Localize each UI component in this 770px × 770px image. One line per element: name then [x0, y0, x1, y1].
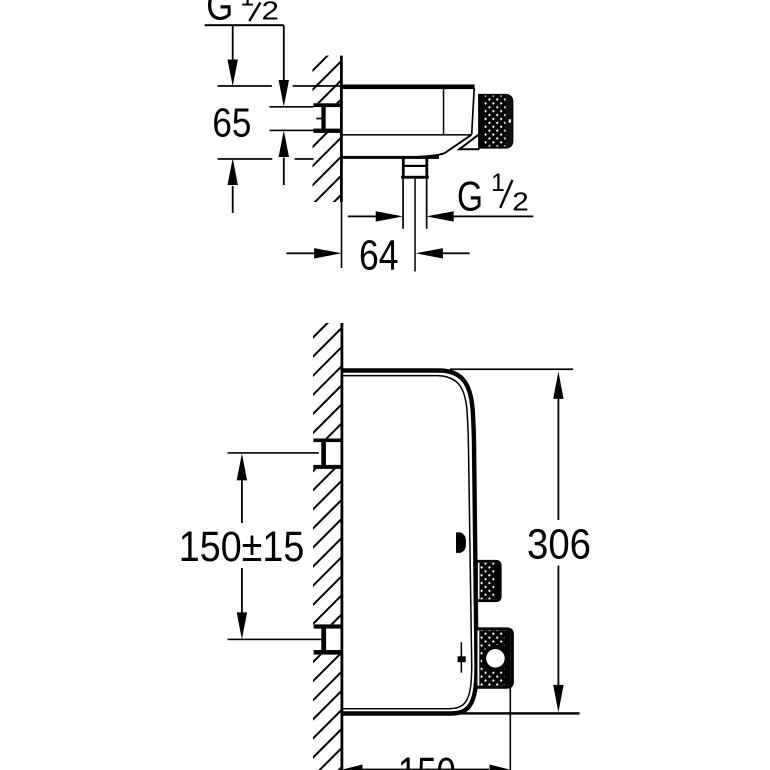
wall hatching (bottom drawing): [313, 323, 342, 770]
lower knob knurl: [479, 630, 506, 685]
upper mounting nipple left edge: [321, 440, 326, 467]
extension line nipple bottom y=130.4: [270, 130, 314, 132]
outlet pipe centerline: [414, 179, 416, 272]
inlet nipple centerline dash: [316, 118, 321, 120]
outlet nipple left edge: [402, 159, 405, 179]
dim arrow 65 down: [228, 60, 238, 87]
inlet nipple background (erases hatch): [311, 103, 340, 133]
inlet nipple top flange: [313, 103, 341, 107]
valve body chamfer line: [419, 135, 472, 157]
dim 64: left line + arrow: [286, 252, 314, 254]
shelf button profile (black blob): [456, 532, 466, 553]
dim line 65 upper shaft: [232, 25, 234, 60]
dim 306 bottom extension line: [460, 712, 580, 714]
lower knob (diverter) outline: [476, 629, 512, 687]
upper mounting nipple top flange: [313, 439, 341, 443]
dim 306 line + arrows: [553, 371, 563, 399]
dim arrow G12 up: [279, 131, 289, 158]
outlet nut top line: [403, 165, 429, 167]
collar chamfer line: [459, 134, 480, 150]
upper mounting nipple bottom flange: [313, 465, 341, 469]
svg-text:150±15: 150±15: [179, 523, 304, 571]
svg-text:306: 306: [527, 521, 591, 569]
upper knob knurl: [480, 563, 497, 599]
svg-text:150: 150: [398, 749, 456, 770]
svg-text:64: 64: [359, 231, 399, 279]
label G 1/2 (right) : fraction slash: [500, 180, 512, 208]
dim 150±15 line upper + arrow up: [237, 453, 247, 480]
dim G12 pipe: right arrow + line: [426, 211, 453, 221]
dim 306 top extension line: [450, 368, 573, 370]
lower mounting nipple background (erases hatch): [311, 624, 341, 654]
lower knob button ring: [482, 645, 509, 672]
dim 150±15 line lower + arrow down: [241, 568, 243, 613]
inlet nipple left edge: [321, 105, 325, 131]
dim line 65 lower shaft: [232, 186, 234, 213]
svg-text:65: 65: [212, 100, 251, 146]
dim 150 right extension line: [510, 688, 512, 770]
upper mounting nipple background (erases hatch): [311, 439, 341, 469]
valve body right edge: [472, 89, 475, 135]
knob knurl fill: [485, 96, 507, 147]
knob right cap: [506, 94, 513, 148]
dim arrow 65 up: [228, 158, 238, 185]
wall surface line (top drawing): [340, 56, 343, 202]
svg-text:1: 1: [240, 0, 254, 12]
dim 150±15 lower extension line: [228, 639, 322, 641]
knob outline: [479, 95, 512, 148]
wall hatching (top drawing): [313, 56, 342, 202]
dim line G12 lower shaft: [283, 158, 285, 186]
valve body feature line horizontal: [342, 134, 471, 136]
svg-text:1: 1: [491, 169, 505, 197]
extension line top of body y=85.9: [218, 85, 272, 87]
valve body feature line vertical: [443, 88, 445, 135]
label G 1/2 (top left) : fraction slash: [249, 3, 260, 22]
lower mounting nipple left edge: [321, 626, 326, 653]
knob cap highlight: [509, 119, 511, 122]
svg-text:G: G: [457, 172, 483, 219]
dim 64: right arrow + line: [416, 248, 443, 258]
thermostat outer contour: [343, 371, 477, 714]
dim 150±15 upper extension line: [228, 452, 319, 454]
upper knob right strip: [495, 563, 500, 599]
outlet pipe left line: [402, 179, 404, 229]
leader underline (top left): [205, 24, 284, 26]
outlet nut bottom line: [401, 176, 429, 179]
dim arrow G12 down: [279, 80, 289, 107]
outlet pipe right line: [426, 179, 428, 229]
lower knob centerline cross: [461, 642, 463, 672]
svg-text:2: 2: [512, 186, 529, 216]
wall surface line (bottom drawing): [341, 323, 344, 770]
inlet nipple bottom flange: [313, 129, 341, 133]
dim line G12 upper shaft: [283, 25, 285, 80]
extension line nipple top y=106.8: [270, 106, 314, 108]
lower knob right strip: [504, 630, 511, 685]
valve body bottom edge (thick): [340, 156, 439, 159]
lower mounting nipple top flange: [314, 624, 341, 628]
lower knob button: [486, 649, 505, 668]
extension line bottom of body y=158.9: [218, 158, 273, 160]
dim 150 bottom line + arrows: [343, 765, 363, 770]
valve body top edge (thick): [340, 85, 475, 90]
lower mounting nipple bottom flange: [314, 650, 341, 655]
thermostat inner contour line: [343, 376, 472, 709]
dim G12 pipe: left line + arrow: [348, 216, 376, 218]
knob left rim bar: [479, 94, 486, 148]
wall extension line below (top drawing): [341, 202, 343, 268]
outlet nipple right edge: [425, 159, 428, 179]
upper knob (temperature) outline: [477, 561, 501, 600]
svg-text:2: 2: [262, 0, 280, 26]
